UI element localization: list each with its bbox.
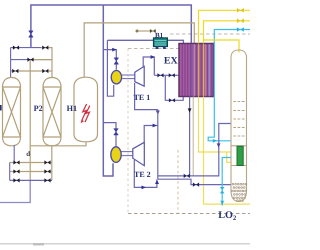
wire blue B1 header <box>107 40 183 43</box>
wire cyan drain LO2 <box>222 158 231 206</box>
instrument stem line B1 <box>137 30 157 32</box>
node stem ball <box>136 30 139 33</box>
arrow lightning tip <box>81 119 84 123</box>
wire yellow top line Y1 <box>199 10 251 43</box>
dashed boundary box bottom <box>128 213 250 215</box>
wire EX inlet line 2 <box>165 75 183 100</box>
valve T1b <box>42 46 48 50</box>
valve T3a <box>12 69 18 73</box>
valve L3a <box>13 178 19 182</box>
filter green element <box>237 146 243 165</box>
dashed boundary box left <box>127 49 129 214</box>
wire blue main header <box>31 5 191 48</box>
valve EX inlet 1b <box>169 73 175 77</box>
vessel H1 <box>74 77 98 142</box>
svg-text:P2: P2 <box>34 104 43 113</box>
valve C1 <box>237 27 244 32</box>
valve L2 <box>193 183 199 187</box>
arrow TE2 merge <box>155 180 159 184</box>
wire blue bottom exit <box>0 180 30 202</box>
compressor B1 box <box>154 38 168 47</box>
dashed boundary top instrument line <box>170 33 250 35</box>
dashed tan partition line <box>177 150 179 214</box>
column LO2 separator <box>231 50 247 202</box>
valve T1a <box>13 46 19 50</box>
arrow C1 into column <box>213 139 217 143</box>
wire tan H1 top header <box>84 23 194 78</box>
wire top manifold T1 tan part <box>41 48 52 78</box>
turbine TE1 body <box>135 66 144 86</box>
wire EX purple outlet <box>189 97 191 176</box>
turbine TE2 shaft <box>121 152 133 156</box>
column packing dots <box>232 183 247 201</box>
wire TE1 feed branch <box>103 50 116 70</box>
valve Y1 <box>237 8 244 13</box>
heat exchanger EX block <box>179 44 214 97</box>
valve EX inlet 1a <box>157 73 163 77</box>
wire purple line L2 to column <box>158 179 231 184</box>
wire blue riser B with TE1 loop <box>107 40 113 96</box>
wire bottom manifold left riser <box>9 163 11 181</box>
valve T3b <box>42 69 48 73</box>
wire yellow product bottom <box>204 97 251 205</box>
svg-text:EX: EX <box>164 56 179 67</box>
valve TE2 inlet <box>114 129 119 135</box>
svg-text:H1: H1 <box>67 104 77 113</box>
wire TE2 outlet up <box>144 126 158 143</box>
valve L1 <box>184 174 190 178</box>
valve L2b <box>44 169 50 173</box>
wire TE2 outlet down loop <box>134 160 157 187</box>
wire P1 bottom drop <box>13 145 15 163</box>
arrow purple downcomer <box>217 143 221 147</box>
wire EX inlet line 1 <box>154 74 179 76</box>
label P1 edge tick <box>0 105 2 111</box>
arrow EX purple outlet <box>188 108 192 112</box>
svg-text:TE 1: TE 1 <box>134 93 151 102</box>
wire TE1 outlet up <box>143 57 154 75</box>
vessel P2 <box>43 78 61 146</box>
arrow TE1 outlet down <box>156 111 160 115</box>
wire yellow feed Y3 <box>204 40 240 53</box>
compressor B1 feet <box>156 46 166 49</box>
arrow cyan drain <box>220 201 224 205</box>
wire TE2 feed branch <box>103 123 116 147</box>
valve L1b <box>44 160 50 164</box>
valve TE1 inlet <box>114 58 119 64</box>
wire tan center vertical <box>29 60 31 181</box>
svg-text:B1: B1 <box>155 31 164 39</box>
arrow TE2 loop <box>142 186 146 190</box>
wire bottom manifold L1 <box>10 162 52 164</box>
valve cyan drain <box>220 187 225 193</box>
wire top manifold line T1 <box>11 47 41 49</box>
wire purple line L1 to column <box>158 124 231 176</box>
valve L1a <box>13 160 19 164</box>
wire TE1 outlet down <box>135 83 158 110</box>
valve L2a <box>13 169 19 173</box>
valve T2 <box>27 58 33 62</box>
wire top manifold line T3 <box>11 70 52 72</box>
turbine TE1 shaft <box>122 75 135 79</box>
svg-text:TE 2: TE 2 <box>134 170 151 179</box>
wire tan H1 bottom <box>30 142 86 146</box>
wire bottom manifold L3 <box>10 179 52 181</box>
wire collector vertical <box>157 110 159 180</box>
page rule line bottom <box>0 243 250 245</box>
valve blue header <box>29 31 34 37</box>
valve stem B1 <box>150 29 156 33</box>
wire bottom manifold L2 <box>10 171 52 173</box>
wire P2 bottom drop <box>51 145 53 180</box>
vessel P1 <box>3 78 21 146</box>
dashed boundary box top <box>128 48 179 50</box>
turbine TE1 generator <box>111 71 121 84</box>
valve L3b <box>44 178 50 182</box>
column tray dashes <box>233 102 244 137</box>
wire blue riser A <box>103 5 113 176</box>
turbine TE2 generator <box>111 147 121 163</box>
arrow TE1 outlet <box>151 55 155 59</box>
valve EX inlet 2 <box>169 98 175 102</box>
wire left manifold riser <box>10 48 12 78</box>
wire EX tan outlet <box>192 97 194 176</box>
wire top manifold line T2 <box>11 59 52 61</box>
wire cyan top line C1 <box>208 30 250 141</box>
wire T2 tan part <box>33 59 52 61</box>
turbine TE2 body <box>133 142 145 165</box>
wire yellow top line Y2 <box>204 21 251 44</box>
arrow TE1 feed <box>112 48 116 52</box>
arrow TE2 outlet <box>153 124 157 128</box>
svg-text:d: d <box>26 150 30 158</box>
wire yellow EX bottom to column <box>199 97 232 163</box>
valve Y2 <box>237 19 244 24</box>
heater symbol red lightning H1 <box>82 104 90 122</box>
